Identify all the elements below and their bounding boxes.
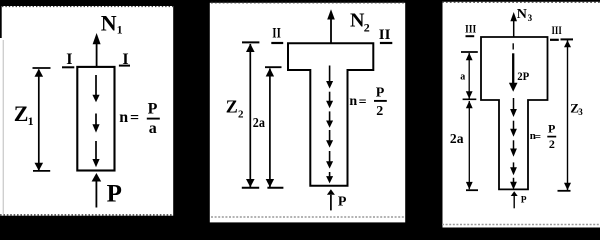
stem arrow 2a5 [326, 151, 333, 169]
section mark I right [119, 51, 130, 68]
section mark III right [550, 23, 562, 40]
dimension line Z2 [242, 42, 260, 187]
stem arrow 2a4 [326, 130, 333, 148]
svg-text:a: a [460, 72, 465, 83]
dimension line a [461, 52, 478, 99]
svg-text:3: 3 [528, 13, 533, 23]
section mark III left [465, 21, 477, 36]
label Z1 [14, 101, 34, 128]
reaction P arrow 3 [511, 191, 518, 208]
svg-text:P: P [107, 180, 122, 207]
svg-text:N: N [101, 11, 117, 36]
T-column outline [288, 43, 373, 186]
dimension line Z3 [558, 39, 574, 190]
panel 1 background [0, 6, 173, 216]
svg-text:n: n [349, 94, 357, 109]
svg-text:P: P [148, 100, 158, 117]
svg-text:N: N [517, 7, 527, 22]
svg-text:n: n [119, 109, 128, 126]
column bar 1 (rectangle) [77, 67, 114, 171]
label 2a (panel 3) [450, 132, 464, 147]
internal force arrow 1c [92, 141, 99, 167]
force N1 arrow [93, 33, 101, 66]
panel 2 top edge dots [211, 2, 404, 4]
label N3 [517, 7, 533, 23]
internal force arrow 1b [92, 114, 99, 133]
formula n = P/2 (panel 3) [530, 121, 556, 151]
panel 1 top edge dots [2, 6, 173, 8]
panel 3 bottom edge dots [442, 224, 600, 226]
internal force arrow 1a [92, 75, 99, 102]
svg-text:II: II [379, 27, 391, 43]
svg-text:=: = [359, 95, 367, 110]
svg-text:I: I [66, 51, 72, 68]
svg-text:P: P [376, 86, 385, 101]
label 2a (panel 2) [253, 116, 265, 131]
label P bottom 1 [107, 180, 122, 207]
panel 3 top edge dots [442, 1, 600, 3]
label Z3 [570, 100, 583, 117]
svg-text:III: III [465, 21, 477, 35]
panel 1 bottom edge dots [0, 214, 173, 216]
label N1 [101, 11, 123, 37]
force 2P arrow [509, 53, 518, 92]
reaction P arrow 1 [92, 173, 102, 208]
svg-text:2: 2 [364, 21, 370, 35]
svg-text:P: P [338, 194, 347, 209]
svg-text:Z: Z [226, 96, 238, 116]
label Z2 [226, 96, 244, 120]
panel 1 top-left page corner [0, 6, 2, 38]
force N2 arrow [327, 9, 335, 43]
section mark II right [379, 27, 393, 43]
stepped column outline [481, 37, 548, 189]
section mark I left [62, 51, 74, 68]
stem arrow 3a3 [510, 140, 517, 156]
formula n = P/a [119, 100, 160, 137]
svg-text:2P: 2P [517, 69, 529, 83]
label P bottom 3 [521, 195, 527, 205]
reaction P arrow 2 [327, 189, 335, 210]
stem arrow 3a2 [510, 121, 517, 137]
panel 2 background [210, 3, 405, 223]
panel 1 faint left border line [2, 40, 4, 214]
svg-text:II: II [272, 26, 281, 42]
svg-text:N: N [350, 9, 365, 31]
svg-text:P: P [521, 195, 527, 205]
stem arrow 2a1 [326, 66, 333, 89]
label 2P [517, 69, 529, 83]
stem arrow 3a5 [510, 178, 517, 190]
force N3 arrow [510, 12, 517, 37]
svg-text:2: 2 [376, 104, 383, 119]
dimension line Z1 [33, 68, 51, 171]
formula n = P/2 (panel 2) [349, 86, 386, 120]
svg-text:a: a [149, 120, 157, 137]
svg-text:P: P [548, 121, 555, 135]
svg-text:1: 1 [28, 114, 34, 128]
label P bottom 2 [338, 194, 347, 209]
panel 3 background [443, 2, 600, 228]
svg-text:III: III [552, 23, 563, 37]
panel 2 bottom edge dots [211, 216, 404, 218]
stem arrow 2a6 [326, 172, 333, 183]
dimension line 2a (panel 2) [265, 67, 283, 188]
stem arrow 3a4 [510, 162, 517, 175]
label a [460, 72, 465, 83]
svg-text:3: 3 [578, 107, 583, 117]
centerline dash (wide part) [512, 43, 514, 49]
dimension line 2a (panel 3) [466, 101, 478, 191]
section mark II left [271, 26, 283, 44]
stem arrow 2a3 [326, 111, 333, 127]
label N2 [350, 9, 370, 34]
svg-text:1: 1 [117, 22, 123, 36]
svg-text:2: 2 [238, 109, 244, 121]
svg-text:=: = [130, 109, 139, 126]
svg-text:2: 2 [549, 137, 555, 151]
stem arrow 3a1 [510, 98, 517, 117]
svg-text:2a: 2a [450, 132, 464, 147]
svg-text:2a: 2a [253, 116, 265, 131]
stem arrow 2a2 [326, 92, 333, 109]
svg-text:Z: Z [14, 101, 29, 126]
svg-text:=: = [535, 131, 541, 143]
